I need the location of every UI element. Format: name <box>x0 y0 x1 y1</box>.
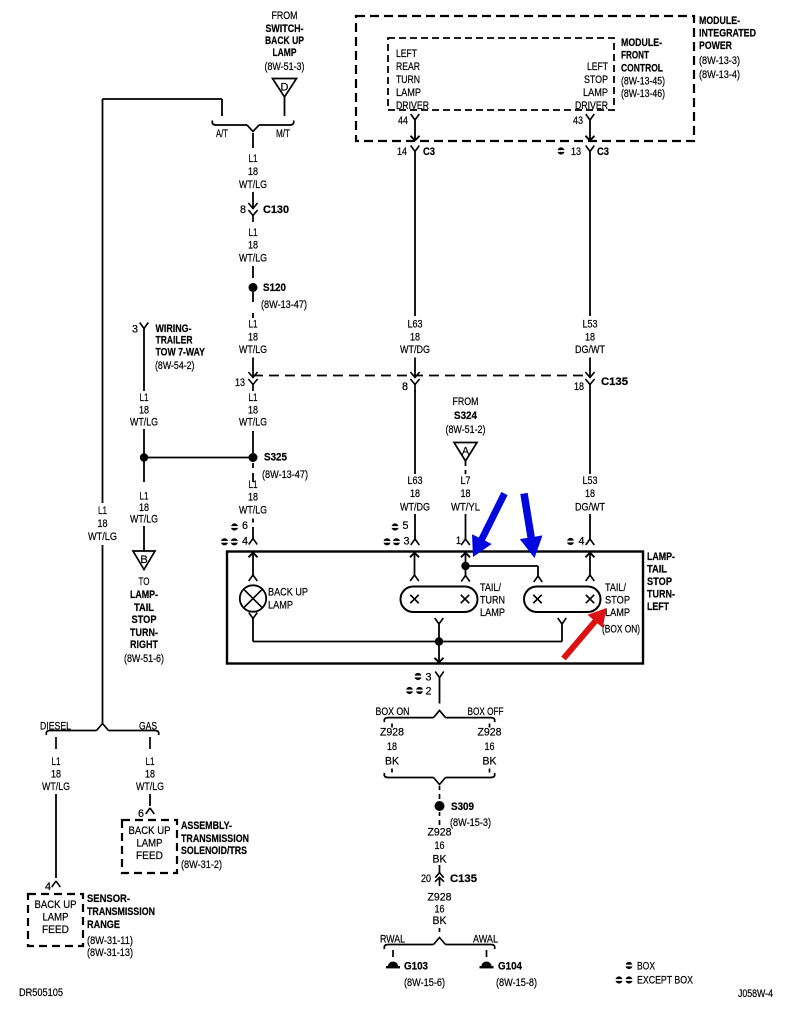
svg-text:AWAL: AWAL <box>473 934 498 946</box>
svg-text:LEFT: LEFT <box>587 61 608 73</box>
svg-text:BACK UP: BACK UP <box>268 587 308 599</box>
svg-text:(8W-15-6): (8W-15-6) <box>404 977 445 989</box>
svg-text:C3: C3 <box>597 146 609 158</box>
svg-text:18: 18 <box>145 768 155 780</box>
svg-text:M/T: M/T <box>276 128 290 140</box>
svg-text:L53: L53 <box>583 319 598 331</box>
svg-text:BACK UP: BACK UP <box>35 899 77 911</box>
svg-text:WT/LG: WT/LG <box>130 514 158 526</box>
svg-text:C135: C135 <box>601 376 628 388</box>
svg-text:16: 16 <box>435 903 445 915</box>
svg-text:(8W-15-8): (8W-15-8) <box>496 977 537 989</box>
svg-text:18: 18 <box>248 331 258 343</box>
svg-text:TRANSMISSION: TRANSMISSION <box>87 906 155 918</box>
svg-text:WT/LG: WT/LG <box>239 252 267 264</box>
svg-text:WT/DG: WT/DG <box>400 344 430 356</box>
svg-text:LAMP: LAMP <box>583 87 608 99</box>
svg-text:MODULE-: MODULE- <box>621 37 662 49</box>
svg-text:D: D <box>281 82 289 94</box>
svg-text:S120: S120 <box>263 282 286 294</box>
svg-text:L53: L53 <box>583 475 598 487</box>
svg-text:CONTROL: CONTROL <box>621 63 663 75</box>
svg-text:L1: L1 <box>52 756 61 768</box>
svg-text:BK: BK <box>385 756 400 768</box>
svg-text:L1: L1 <box>98 505 107 517</box>
svg-text:4: 4 <box>242 536 248 548</box>
svg-text:TAIL/: TAIL/ <box>605 582 627 594</box>
svg-text:8: 8 <box>240 204 246 216</box>
svg-text:BACK UP: BACK UP <box>265 35 304 47</box>
svg-text:Z928: Z928 <box>428 827 452 839</box>
svg-text:L1: L1 <box>140 491 149 503</box>
svg-text:C130: C130 <box>263 204 289 216</box>
svg-text:L1: L1 <box>249 319 258 331</box>
svg-text:LAMP-: LAMP- <box>647 551 675 563</box>
svg-text:18: 18 <box>410 331 420 343</box>
svg-text:Z928: Z928 <box>428 892 452 904</box>
svg-text:TRANSMISSION: TRANSMISSION <box>181 833 249 845</box>
svg-text:S324: S324 <box>454 410 478 422</box>
svg-text:WT/LG: WT/LG <box>239 179 267 191</box>
svg-text:(8W-31-11): (8W-31-11) <box>87 935 133 947</box>
svg-text:5: 5 <box>403 520 409 532</box>
svg-text:4: 4 <box>45 881 51 893</box>
svg-text:(8W-13-46): (8W-13-46) <box>621 88 665 100</box>
svg-text:TURN: TURN <box>480 595 505 607</box>
svg-text:2: 2 <box>426 686 432 698</box>
svg-text:DR505105: DR505105 <box>19 987 63 999</box>
svg-text:16: 16 <box>485 741 495 753</box>
svg-text:FROM: FROM <box>453 396 479 408</box>
svg-text:18: 18 <box>585 488 595 500</box>
svg-text:SOLENOID/TRS: SOLENOID/TRS <box>181 845 247 857</box>
svg-text:(8W-51-2): (8W-51-2) <box>446 424 486 436</box>
svg-text:SENSOR-: SENSOR- <box>87 893 130 905</box>
svg-text:14: 14 <box>397 146 407 158</box>
svg-text:MODULE-: MODULE- <box>699 15 740 27</box>
svg-text:TAIL: TAIL <box>134 602 154 614</box>
svg-text:LAMP: LAMP <box>268 600 293 612</box>
svg-text:WIRING-: WIRING- <box>156 323 192 335</box>
svg-text:WT/LG: WT/LG <box>88 531 117 543</box>
svg-text:18: 18 <box>139 404 149 416</box>
svg-text:TURN: TURN <box>396 74 420 86</box>
svg-text:A: A <box>462 446 470 458</box>
svg-text:LEFT: LEFT <box>396 48 417 60</box>
svg-text:L1: L1 <box>140 392 149 404</box>
svg-text:L63: L63 <box>408 475 423 487</box>
svg-text:(8W-31-2): (8W-31-2) <box>181 859 222 871</box>
svg-text:43: 43 <box>573 115 583 127</box>
svg-text:DRIVER: DRIVER <box>396 100 429 112</box>
svg-text:EXCEPT BOX: EXCEPT BOX <box>637 975 694 987</box>
svg-text:G103: G103 <box>404 961 428 973</box>
svg-text:L63: L63 <box>408 319 423 331</box>
svg-text:18: 18 <box>248 166 258 178</box>
svg-text:REAR: REAR <box>396 61 420 73</box>
svg-text:18: 18 <box>585 331 595 343</box>
svg-text:4: 4 <box>579 536 585 548</box>
svg-text:18: 18 <box>51 768 61 780</box>
svg-text:LAMP: LAMP <box>273 47 297 59</box>
svg-text:S325: S325 <box>264 452 287 464</box>
svg-text:FEED: FEED <box>136 850 163 862</box>
svg-text:B: B <box>140 554 147 566</box>
svg-text:20: 20 <box>421 873 431 885</box>
svg-text:POWER: POWER <box>699 40 732 52</box>
svg-text:18: 18 <box>248 404 258 416</box>
svg-text:RANGE: RANGE <box>87 919 120 931</box>
svg-text:18: 18 <box>461 488 471 500</box>
svg-text:6: 6 <box>138 808 144 820</box>
svg-text:WT/DG: WT/DG <box>400 501 430 513</box>
svg-text:GAS: GAS <box>139 721 157 733</box>
svg-text:LAMP: LAMP <box>43 912 69 924</box>
svg-text:L1: L1 <box>146 756 155 768</box>
svg-text:DG/WT: DG/WT <box>575 344 605 356</box>
svg-text:18: 18 <box>574 381 584 393</box>
svg-text:L1: L1 <box>249 479 258 491</box>
svg-text:18: 18 <box>410 488 420 500</box>
svg-text:L1: L1 <box>249 153 258 165</box>
svg-text:FRONT: FRONT <box>621 50 649 62</box>
svg-text:L7: L7 <box>461 475 471 487</box>
svg-text:(8W-13-45): (8W-13-45) <box>621 76 665 88</box>
svg-text:13: 13 <box>235 377 245 389</box>
svg-text:DG/WT: DG/WT <box>575 501 605 513</box>
svg-text:WT/LG: WT/LG <box>130 417 158 429</box>
svg-text:BK: BK <box>433 853 448 865</box>
svg-text:LAMP: LAMP <box>137 838 163 850</box>
svg-text:LAMP: LAMP <box>480 607 505 619</box>
svg-text:BK: BK <box>483 756 498 768</box>
svg-text:INTEGRATED: INTEGRATED <box>699 28 756 40</box>
svg-text:TURN-: TURN- <box>130 627 158 639</box>
svg-text:L1: L1 <box>249 227 258 239</box>
svg-text:STOP: STOP <box>605 595 630 607</box>
svg-text:BK: BK <box>433 915 448 927</box>
svg-text:BACK UP: BACK UP <box>129 825 171 837</box>
svg-text:TRAILER: TRAILER <box>156 335 193 347</box>
svg-text:J058W-4: J058W-4 <box>738 988 773 1000</box>
svg-text:BOX: BOX <box>637 961 656 973</box>
svg-text:16: 16 <box>435 840 445 852</box>
svg-text:DIESEL: DIESEL <box>40 721 71 733</box>
svg-text:C135: C135 <box>450 873 477 885</box>
svg-text:44: 44 <box>398 115 408 127</box>
svg-text:STOP: STOP <box>647 576 672 588</box>
svg-text:STOP: STOP <box>584 74 608 86</box>
svg-text:8: 8 <box>402 381 408 393</box>
svg-text:18: 18 <box>387 741 397 753</box>
svg-text:(8W-15-3): (8W-15-3) <box>450 817 491 829</box>
svg-text:STOP: STOP <box>132 614 157 626</box>
svg-text:(8W-54-2): (8W-54-2) <box>155 360 195 372</box>
svg-text:SWITCH-: SWITCH- <box>266 23 304 35</box>
svg-text:3: 3 <box>426 672 432 684</box>
svg-text:LEFT: LEFT <box>647 601 669 613</box>
svg-text:3: 3 <box>404 536 410 548</box>
svg-text:LAMP: LAMP <box>605 607 630 619</box>
svg-text:1: 1 <box>456 535 461 547</box>
svg-text:G104: G104 <box>498 961 523 973</box>
svg-text:WT/LG: WT/LG <box>239 504 267 516</box>
svg-text:A/T: A/T <box>216 128 228 140</box>
svg-text:13: 13 <box>571 146 581 158</box>
svg-text:L1: L1 <box>249 392 258 404</box>
svg-text:TURN-: TURN- <box>647 589 675 601</box>
svg-text:6: 6 <box>242 520 248 532</box>
svg-text:BOX OFF: BOX OFF <box>468 706 504 718</box>
svg-text:WT/YL: WT/YL <box>451 501 480 513</box>
svg-text:RIGHT: RIGHT <box>130 639 158 651</box>
svg-text:TAIL/: TAIL/ <box>480 582 502 594</box>
svg-text:TO: TO <box>139 576 150 588</box>
svg-text:S309: S309 <box>451 801 474 813</box>
svg-text:(8W-51-3): (8W-51-3) <box>265 61 305 73</box>
svg-text:18: 18 <box>139 502 149 514</box>
svg-text:WT/LG: WT/LG <box>239 344 267 356</box>
svg-text:LAMP-: LAMP- <box>130 589 158 601</box>
svg-text:WT/LG: WT/LG <box>239 417 267 429</box>
svg-text:FEED: FEED <box>42 924 69 936</box>
svg-text:FROM: FROM <box>272 10 298 22</box>
svg-text:RWAL: RWAL <box>380 934 405 946</box>
svg-text:18: 18 <box>98 518 108 530</box>
svg-text:DRIVER: DRIVER <box>575 100 608 112</box>
svg-text:WT/LG: WT/LG <box>136 781 164 793</box>
svg-text:LAMP: LAMP <box>396 87 421 99</box>
svg-text:BOX ON: BOX ON <box>376 706 410 718</box>
svg-text:WT/LG: WT/LG <box>42 781 70 793</box>
svg-text:18: 18 <box>248 240 258 252</box>
svg-text:(8W-51-6): (8W-51-6) <box>124 653 164 665</box>
svg-text:18: 18 <box>248 492 258 504</box>
svg-text:C3: C3 <box>423 146 435 158</box>
svg-text:(8W-13-4): (8W-13-4) <box>699 69 740 81</box>
svg-text:(8W-13-47): (8W-13-47) <box>261 299 307 311</box>
svg-text:Z928: Z928 <box>380 727 404 739</box>
svg-text:Z928: Z928 <box>478 727 502 739</box>
svg-text:(BOX ON): (BOX ON) <box>602 624 640 636</box>
svg-text:(8W-13-47): (8W-13-47) <box>262 469 308 481</box>
svg-text:3: 3 <box>132 324 138 336</box>
svg-text:(8W-31-13): (8W-31-13) <box>87 947 133 959</box>
svg-text:TOW 7-WAY: TOW 7-WAY <box>156 347 206 359</box>
svg-text:TAIL: TAIL <box>647 564 667 576</box>
svg-text:ASSEMBLY-: ASSEMBLY- <box>181 820 232 832</box>
svg-text:(8W-13-3): (8W-13-3) <box>699 55 740 67</box>
